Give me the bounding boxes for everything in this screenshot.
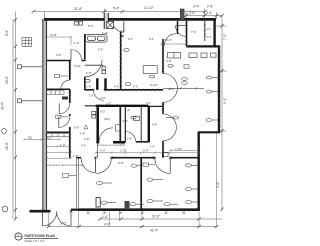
keyed note box CD1 xyxy=(54,75,68,78)
counter edge line mid xyxy=(85,64,104,66)
svg-text:11'-10": 11'-10" xyxy=(144,6,154,10)
partition horizontal office divider y89 xyxy=(47,88,70,90)
svg-text:32'-0": 32'-0" xyxy=(1,102,5,110)
svg-text:16'-6": 16'-6" xyxy=(5,142,9,150)
toilet west wall hatched xyxy=(96,106,99,144)
wall hatch x163 xyxy=(162,40,165,154)
extension line top mid column xyxy=(104,9,106,14)
wall hatch corridor north xyxy=(105,88,158,91)
door leaf right entry xyxy=(70,211,72,226)
partition vertical x186 xyxy=(186,21,188,46)
keyed notes corridor stack xyxy=(92,111,96,114)
keyed box right room xyxy=(184,65,189,68)
door swing semicircle x163 upper xyxy=(163,74,177,103)
svg-text:6'-0": 6'-0" xyxy=(133,86,138,89)
svg-text:5'-0": 5'-0" xyxy=(100,149,106,153)
corridor south wall y106 dark part xyxy=(96,105,149,107)
svg-text:1'-1": 1'-1" xyxy=(207,28,212,31)
svg-text:PARTITIONS PLAN: PARTITIONS PLAN xyxy=(25,234,56,238)
svg-text:8'-6": 8'-6" xyxy=(5,30,9,36)
interior dim line top left room xyxy=(45,36,72,45)
cabinet bottom big room xyxy=(96,198,100,208)
wall hatch x219 xyxy=(218,47,221,129)
dimension line top right segment xyxy=(186,15,222,17)
bottom extension lines xyxy=(48,133,216,228)
door swing arc office3 xyxy=(59,116,70,127)
extension line right top xyxy=(216,25,227,27)
wall hatch x70 xyxy=(68,61,71,154)
outlet oval room mid low xyxy=(147,178,153,181)
dimension labels xyxy=(1,5,228,233)
door swing semicircle x163 lower xyxy=(163,114,176,141)
svg-text:5'-8": 5'-8" xyxy=(74,126,80,130)
svg-text:1'-6": 1'-6" xyxy=(73,154,79,158)
svg-text:16'-6": 16'-6" xyxy=(5,76,9,84)
wall step lower right xyxy=(199,131,221,133)
dim line right alcove xyxy=(169,149,200,151)
svg-text:(110): (110) xyxy=(168,88,174,91)
toilet2 east wall dark xyxy=(148,106,150,142)
svg-text:SCALE: 1/4" = 1'-0": SCALE: 1/4" = 1'-0" xyxy=(25,240,45,243)
door leaf office2 xyxy=(58,103,60,113)
partition horizontal big room top y157.7 xyxy=(76,157,198,159)
door swing arc top mid xyxy=(113,21,124,32)
svg-text:11'-6": 11'-6" xyxy=(152,215,160,219)
door jamb tick marks xyxy=(41,35,171,212)
wall hatch x120.7 xyxy=(119,32,122,88)
svg-text:7'-10": 7'-10" xyxy=(175,147,182,151)
dimension line top main xyxy=(33,11,205,13)
column pier top mid xyxy=(102,13,114,35)
svg-text:3'-0": 3'-0" xyxy=(207,36,212,39)
svg-text:4'-1/2": 4'-1/2" xyxy=(150,83,158,87)
svg-text:3'-0": 3'-0" xyxy=(106,103,111,106)
corridor south wall y106 thin part xyxy=(85,105,163,108)
svg-text:2'-6": 2'-6" xyxy=(98,49,103,52)
svg-text:1'-6": 1'-6" xyxy=(86,85,92,89)
title underline xyxy=(25,238,59,240)
dimension line bottom inner xyxy=(100,218,222,220)
outlet oval near wall85 xyxy=(85,79,90,82)
hall dimension line row xyxy=(95,152,201,154)
door swing arc toilet2 xyxy=(125,132,135,142)
svg-text:7'-2": 7'-2" xyxy=(223,34,227,40)
svg-text:9'-1": 9'-1" xyxy=(223,98,227,104)
jamb ticks along bottom wall xyxy=(87,212,185,214)
svg-text:7'-6": 7'-6" xyxy=(191,30,197,34)
door leaf office3 xyxy=(58,117,60,128)
svg-text:2'-8": 2'-8" xyxy=(127,138,132,141)
wall bottom main exterior xyxy=(79,208,200,211)
svg-text:1'-0": 1'-0" xyxy=(150,146,155,149)
casework row top right room xyxy=(168,53,217,59)
door leaf big room right xyxy=(169,158,171,173)
svg-text:2'-8": 2'-8" xyxy=(207,5,213,9)
connector line x97.5 xyxy=(97,144,99,158)
svg-text:3'-4": 3'-4" xyxy=(193,5,199,9)
door swing arc big room right xyxy=(155,158,170,173)
svg-text:5'-4": 5'-4" xyxy=(88,24,94,28)
outlet ovals upper right room xyxy=(206,76,212,79)
svg-text:1'-0": 1'-0" xyxy=(60,143,66,147)
partition horizontal office divider y132 xyxy=(47,131,70,133)
column pier top right xyxy=(180,9,184,21)
door swing arc left entry xyxy=(43,211,57,226)
svg-text:4'-0": 4'-0" xyxy=(100,96,106,100)
svg-text:3'-6": 3'-6" xyxy=(152,124,157,127)
outlet ovals above bottom wall xyxy=(130,203,178,206)
door leaf office1 xyxy=(61,88,70,90)
keyed oval top mid room xyxy=(124,49,129,52)
svg-text:1'-6": 1'-6" xyxy=(102,215,108,219)
wall top exterior xyxy=(44,18,216,21)
partition vertical x70 offices xyxy=(69,61,71,158)
dimension line bottom long xyxy=(48,226,217,228)
svg-text:5'-4": 5'-4" xyxy=(113,7,119,11)
wall stub west of corridor door xyxy=(96,78,98,90)
svg-text:(110): (110) xyxy=(104,118,110,121)
door leaf top right room xyxy=(176,25,187,27)
door leaf top mid xyxy=(123,21,125,32)
dim line office3 xyxy=(45,145,71,147)
casework row office2 xyxy=(47,91,65,94)
door leaf left entry xyxy=(42,211,44,226)
wall bottom left stub xyxy=(30,210,51,213)
outlet oval near door xyxy=(131,164,137,167)
svg-text:5'-2": 5'-2" xyxy=(100,110,106,114)
wall stub right of entry door xyxy=(71,209,79,211)
svg-text:1'-0": 1'-0" xyxy=(89,95,94,98)
partition vertical vestibule x77.3 xyxy=(76,158,78,209)
svg-text:5'-0": 5'-0" xyxy=(149,38,154,41)
door leaf vestibule center post xyxy=(94,158,96,172)
desk upper right xyxy=(143,66,157,74)
counter top left room xyxy=(86,35,108,43)
svg-text:4'-6": 4'-6" xyxy=(56,53,62,57)
tick marks on leader xyxy=(180,87,197,89)
wall right lower exterior xyxy=(197,132,199,211)
column stub bottom mid xyxy=(125,201,130,210)
title circle xyxy=(15,233,22,240)
svg-text:1'-6": 1'-6" xyxy=(84,137,90,141)
door swing arc corridor xyxy=(94,90,104,100)
outlet oval near disc2 xyxy=(173,116,179,119)
vestibule dim lines xyxy=(45,151,72,159)
svg-text:2'-0": 2'-0" xyxy=(123,119,129,123)
svg-text:6'-2": 6'-2" xyxy=(128,38,133,41)
outlet oval room left low xyxy=(97,181,103,184)
svg-text:6'-8": 6'-8" xyxy=(118,161,124,165)
casework row office3 xyxy=(46,134,70,137)
hatch legend block outside left wall xyxy=(22,38,32,47)
partition vertical x177.5 top xyxy=(177,21,179,34)
outlet oval pair upper right xyxy=(168,64,173,67)
keyed note box CD2 xyxy=(56,115,68,118)
svg-text:31'-8": 31'-8" xyxy=(74,7,82,11)
squares on top wall xyxy=(75,22,79,26)
svg-text:1'-4": 1'-4" xyxy=(74,41,80,45)
wall hatch x186 xyxy=(185,21,188,45)
svg-text:1'-6": 1'-6" xyxy=(86,71,92,75)
svg-text:EQ: EQ xyxy=(47,136,51,140)
door swing arc top right room xyxy=(176,26,187,37)
section marker left xyxy=(2,206,8,212)
chase wall x141 upper thin xyxy=(140,106,142,142)
extension line top left corner xyxy=(44,12,46,20)
wall right mid exterior xyxy=(218,46,220,133)
toilet1 fixture xyxy=(115,125,120,132)
svg-text:2'-2": 2'-2" xyxy=(120,29,126,33)
left area dim row xyxy=(23,138,61,140)
svg-text:1'-6": 1'-6" xyxy=(80,132,86,136)
outlet ovals right room xyxy=(186,164,192,167)
svg-text:ALIGN FACE OF PARTITION W/ EXI: ALIGN FACE OF PARTITION W/ EXISTING xyxy=(46,164,83,167)
dimension ticks xyxy=(14,10,224,228)
svg-text:3'-6": 3'-6" xyxy=(189,11,195,15)
door swing arc toilet1 xyxy=(99,128,113,142)
leader line mid right xyxy=(163,87,204,89)
partition vertical x120.7 top rooms xyxy=(120,32,122,90)
door swing arc office1 xyxy=(61,80,70,89)
outlet ovals at mid leader xyxy=(182,78,188,81)
svg-text:41'-4": 41'-4" xyxy=(150,229,158,233)
toilet2 fixture xyxy=(134,116,140,120)
wall step upper right xyxy=(187,45,220,47)
svg-text:3'-0": 3'-0" xyxy=(143,149,149,153)
door swing arc office2 xyxy=(59,103,70,114)
keyed triangle note xyxy=(84,125,88,129)
toilet2 south wall xyxy=(136,141,149,143)
door swing arc vestibule west xyxy=(81,158,95,172)
svg-text:4'-1": 4'-1" xyxy=(81,144,87,148)
door arc office front xyxy=(85,60,102,77)
door swing arc right entry xyxy=(57,211,71,226)
svg-text:3'-4": 3'-4" xyxy=(114,86,119,89)
dimension line left xyxy=(15,12,17,220)
extra small dimension notes center xyxy=(89,38,174,149)
keyed box CD right room xyxy=(143,163,155,166)
svg-text:4'-6": 4'-6" xyxy=(125,109,130,112)
transom box above right door xyxy=(162,152,168,156)
wall left exterior xyxy=(43,19,47,211)
svg-text:3'-10": 3'-10" xyxy=(74,64,81,68)
door swing arc x177 room xyxy=(164,34,176,46)
svg-text:4'-6": 4'-6" xyxy=(166,59,172,63)
dimension line left outer xyxy=(12,19,14,219)
svg-text:4'-1": 4'-1" xyxy=(146,101,152,105)
toilet2 west wall xyxy=(124,106,126,142)
extension line right mid xyxy=(221,70,227,72)
marker left mid xyxy=(2,129,7,134)
keyed rect vestibule leader xyxy=(63,174,77,178)
svg-text:EQ: EQ xyxy=(28,136,32,140)
svg-text:14'-8": 14'-8" xyxy=(50,33,57,37)
svg-text:3'-4": 3'-4" xyxy=(206,11,212,15)
wall right upper exterior xyxy=(213,19,215,47)
svg-text:4'-0": 4'-0" xyxy=(166,38,172,42)
toilet south wall xyxy=(96,141,125,144)
door swing arc at y60 xyxy=(71,50,82,61)
casework dark end panel xyxy=(62,97,68,100)
door swing arc vestibule east xyxy=(96,158,111,173)
partition vertical x141 lower xyxy=(140,158,142,210)
wall stub east of corridor door xyxy=(104,78,106,90)
toilet east wall xyxy=(119,106,121,144)
keyed note left wall 1 xyxy=(18,65,22,69)
closet partition top right room xyxy=(203,21,211,41)
keyed note left wall 2 xyxy=(18,99,22,103)
door leaf at y60 xyxy=(70,50,72,61)
keyed oval toilet2 xyxy=(131,116,136,119)
wall hatch y46 step xyxy=(187,45,218,48)
partition vertical x85 upper xyxy=(84,34,86,90)
extension line top right xyxy=(204,9,206,20)
extra jamb ticks center xyxy=(93,72,165,145)
keyed oval mid zone 2 xyxy=(149,75,154,78)
partition vertical corridor east x163 xyxy=(162,39,164,158)
keyed oval mid zone 1 xyxy=(125,83,130,86)
dim line top right interior xyxy=(160,43,187,45)
dimension line right xyxy=(221,16,223,210)
corridor north wall y90 xyxy=(85,89,163,91)
partition horizontal y60 left xyxy=(47,60,86,62)
